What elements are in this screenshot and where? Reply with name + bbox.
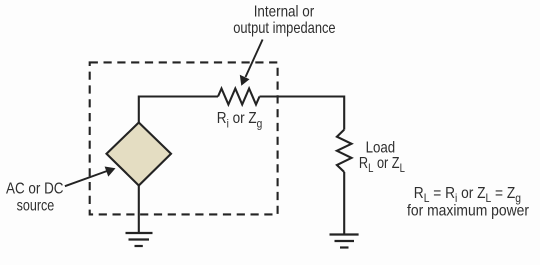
svg-text:for maximum power: for maximum power bbox=[407, 202, 530, 219]
ground (source) bbox=[126, 233, 153, 246]
arrow: source label to diamond bbox=[65, 167, 116, 187]
wire: load bottom to ground bbox=[343, 172, 345, 235]
resistor Ri/Zg bbox=[218, 89, 260, 105]
wire: diamond bottom to ground bbox=[138, 186, 140, 234]
AC/DC source (diamond) bbox=[107, 123, 172, 186]
svg-text:Internal or: Internal or bbox=[254, 4, 315, 21]
resistor RL/ZL (load) bbox=[337, 130, 352, 172]
svg-text:source: source bbox=[17, 198, 55, 215]
dashed source box bbox=[90, 62, 278, 214]
wire: diamond top to resistor left bbox=[139, 97, 218, 124]
arrow: impedance label to resistor bbox=[240, 40, 263, 86]
svg-text:AC or DC: AC or DC bbox=[6, 181, 64, 198]
ground (load) bbox=[330, 235, 359, 248]
svg-text:output impedance: output impedance bbox=[233, 20, 335, 37]
wire: resistor right to load top bbox=[260, 97, 345, 130]
